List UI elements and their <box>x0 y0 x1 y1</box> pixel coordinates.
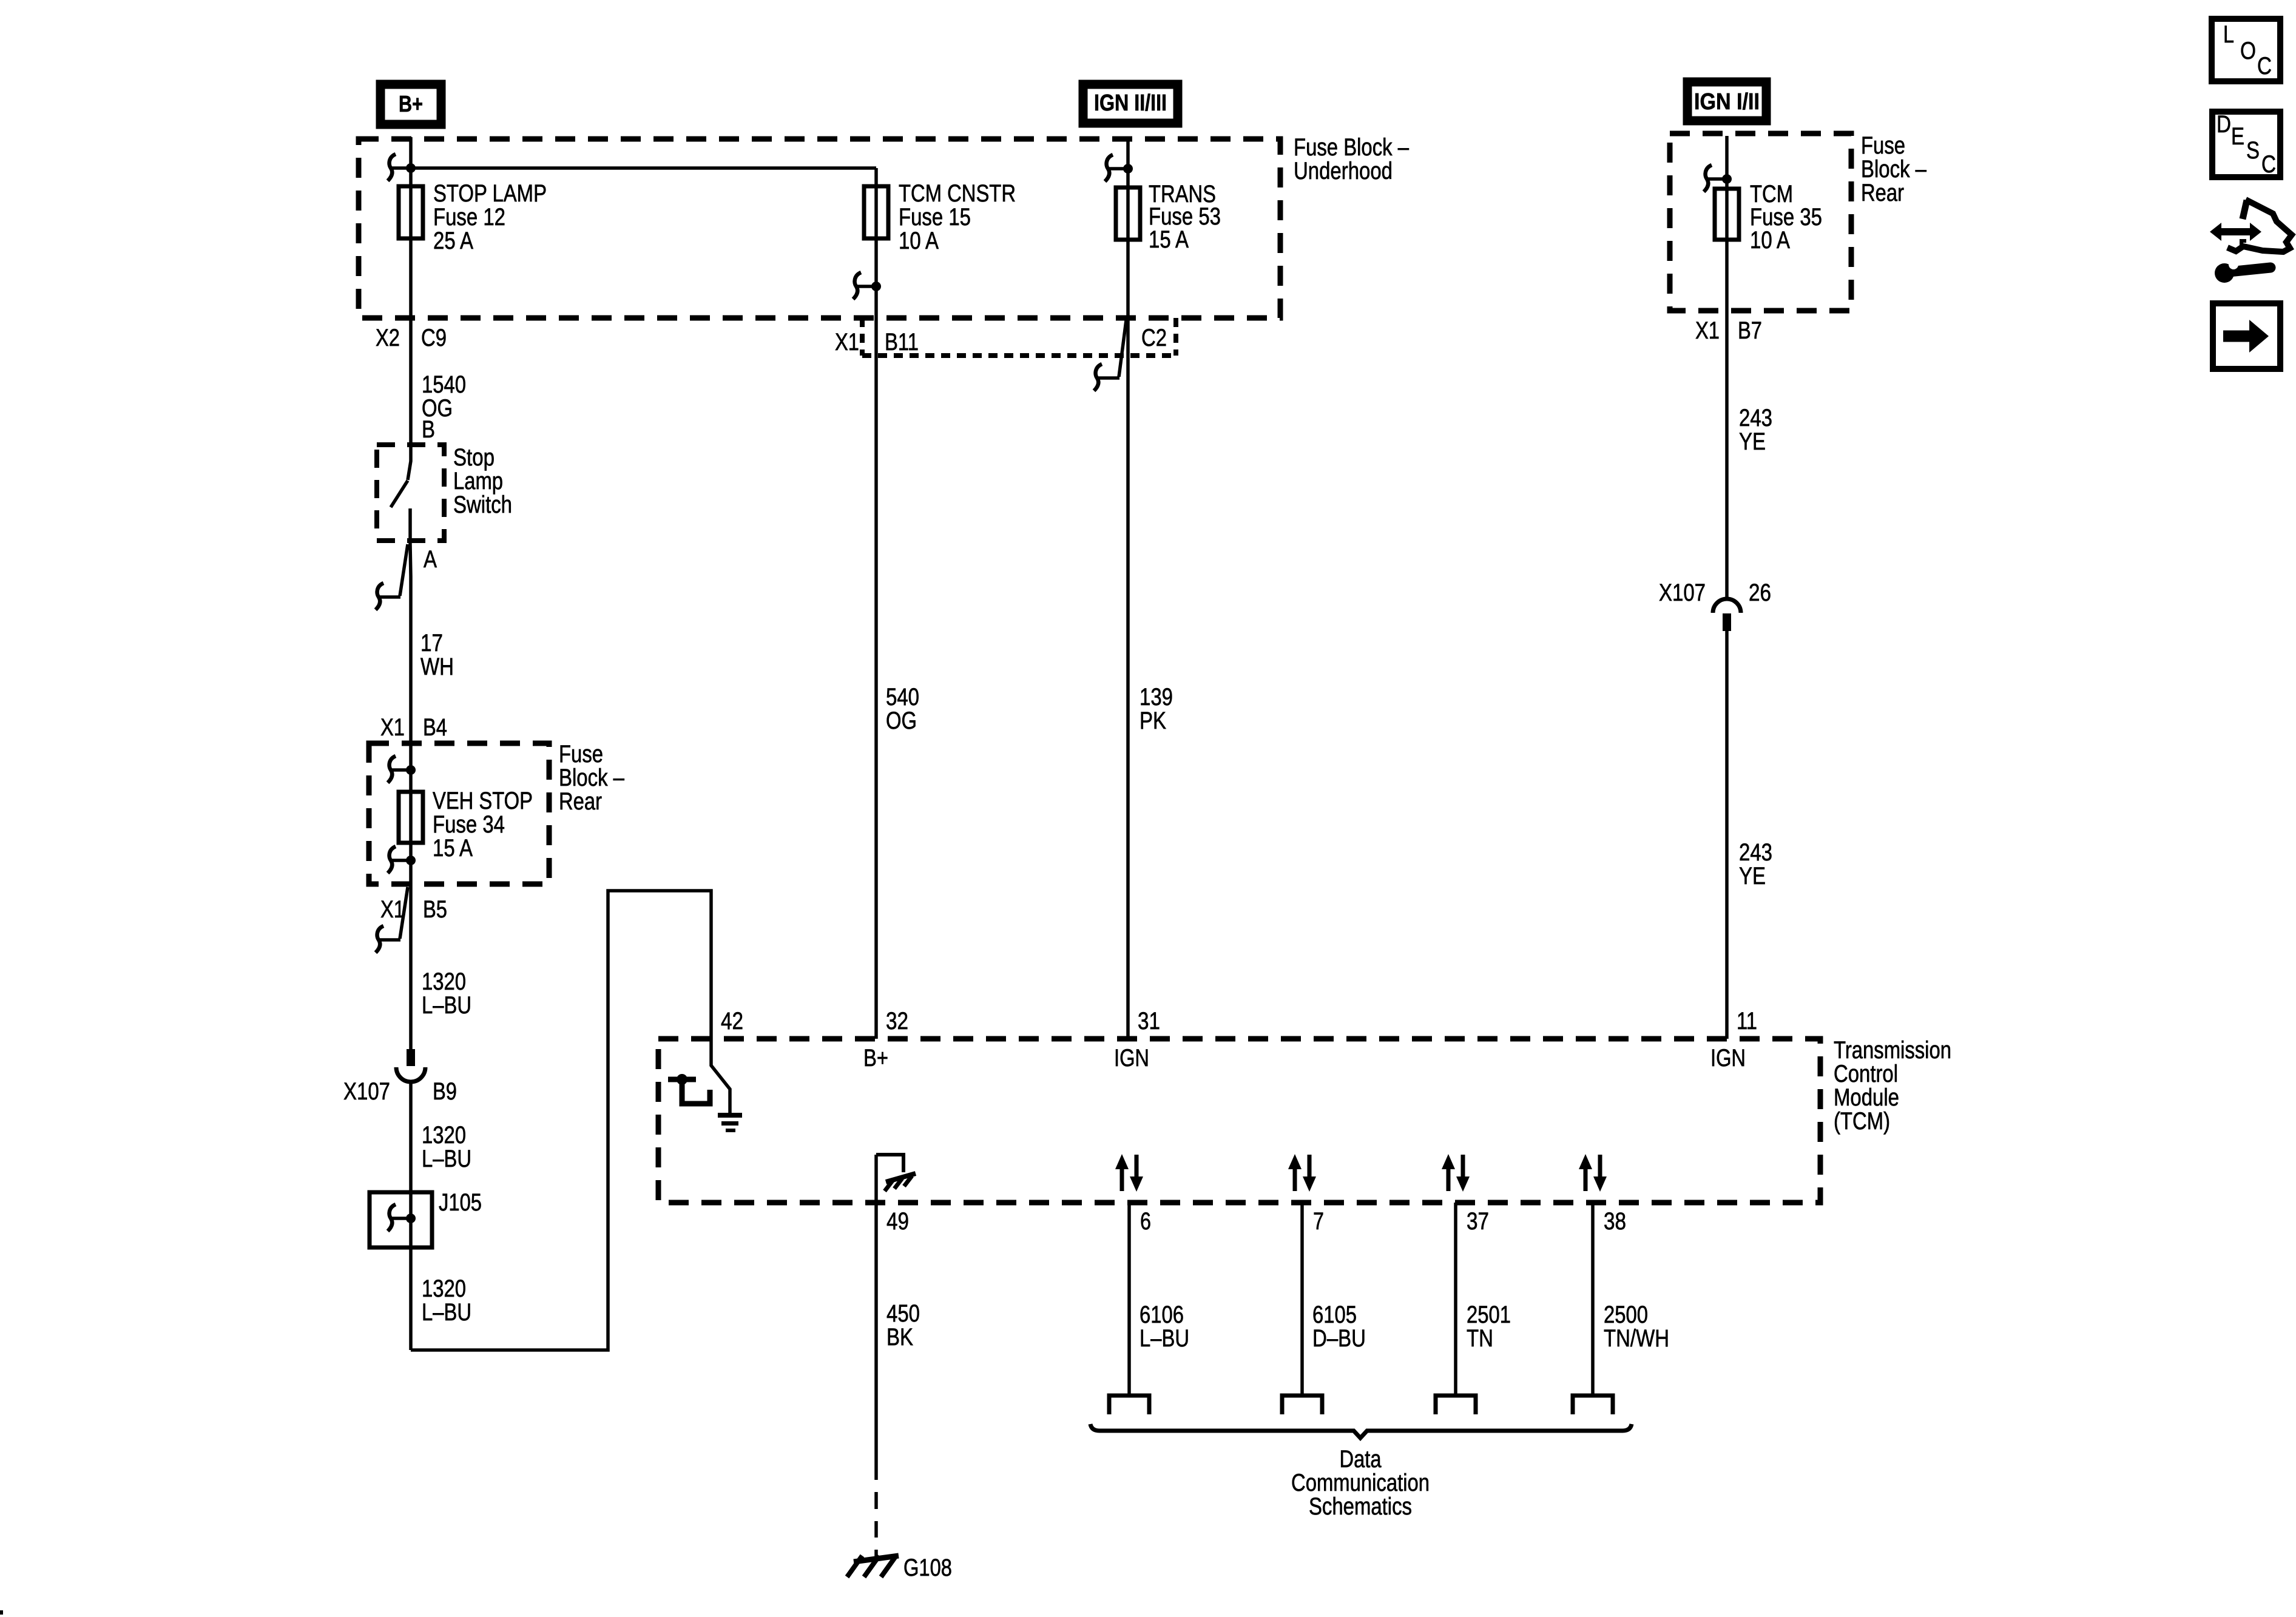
brace data communication <box>1090 1424 1632 1520</box>
svg-text:49: 49 <box>886 1208 909 1235</box>
wire label 139 PK <box>1140 684 1173 734</box>
svg-text:Fuse 34: Fuse 34 <box>433 811 505 838</box>
svg-text:Fuse 12: Fuse 12 <box>433 204 505 231</box>
wire TRANS fuse feed down to pin 31 <box>1126 141 1130 1039</box>
svg-text:X2: X2 <box>376 325 400 351</box>
wire label 1320 L-BU <box>422 1275 471 1326</box>
switch blade <box>391 481 408 507</box>
svg-text:B+: B+ <box>863 1045 888 1072</box>
connector clip at B5 <box>376 887 408 953</box>
svg-text:Fuse: Fuse <box>559 741 603 768</box>
svg-text:1320: 1320 <box>422 1275 466 1302</box>
icon DESC box <box>2212 111 2280 178</box>
svg-text:TN: TN <box>1467 1325 1493 1352</box>
svg-text:J105: J105 <box>439 1189 482 1216</box>
scan artifact dot bottom-left <box>0 1610 3 1615</box>
node junction B+ rail <box>406 163 416 173</box>
pin 49 label <box>886 1208 909 1235</box>
label X1 B7 <box>1695 317 1762 344</box>
svg-text:IGN II/III: IGN II/III <box>1094 90 1167 116</box>
wire B+ feed down left column <box>408 137 411 480</box>
svg-text:1540: 1540 <box>422 371 466 398</box>
wire label 1540 OG <box>422 371 466 422</box>
internal ground at pin 49 <box>876 1155 916 1191</box>
svg-text:TCM CNSTR: TCM CNSTR <box>899 180 1016 207</box>
svg-text:Stop: Stop <box>453 444 495 471</box>
svg-text:1320: 1320 <box>422 968 466 995</box>
clip at fuse 34 output <box>388 846 416 873</box>
svg-text:B4: B4 <box>423 714 447 741</box>
serial data arrows pin 7 <box>1288 1154 1316 1192</box>
svg-text:B: B <box>422 416 435 443</box>
icon LOC box <box>2212 19 2280 81</box>
stop lamp switch dashed box <box>377 444 512 541</box>
svg-text:Schematics: Schematics <box>1309 1493 1412 1520</box>
fuse F53 TRANS 15A <box>1116 181 1221 253</box>
svg-text:IGN: IGN <box>1114 1045 1149 1072</box>
power symbol IGN I/II box <box>1687 82 1766 121</box>
serial data arrows pin 38 <box>1579 1154 1607 1192</box>
svg-text:BK: BK <box>886 1324 913 1351</box>
svg-text:1320: 1320 <box>422 1122 466 1149</box>
wire 450 BK from pin 49 <box>876 1155 920 1557</box>
svg-text:STOP LAMP: STOP LAMP <box>433 180 547 207</box>
svg-text:B11: B11 <box>885 329 919 356</box>
svg-text:6: 6 <box>1140 1208 1151 1235</box>
svg-text:Module: Module <box>1834 1084 1899 1111</box>
svg-text:139: 139 <box>1140 684 1173 711</box>
wire label 17 WH <box>420 630 454 680</box>
svg-text:42: 42 <box>721 1008 743 1035</box>
svg-text:E: E <box>2231 123 2244 150</box>
svg-text:B9: B9 <box>433 1078 457 1105</box>
splice J105 box <box>370 1189 482 1247</box>
svg-text:Communication: Communication <box>1291 1470 1430 1496</box>
net label IGN at pin 11 <box>1710 1045 1746 1072</box>
svg-text:Transmission: Transmission <box>1834 1037 1951 1064</box>
svg-text:Underhood: Underhood <box>1294 158 1393 184</box>
wire TCM CNSTR fuse feed down to pin 32 <box>874 168 878 1039</box>
label X1 B11 <box>835 329 919 356</box>
connector X1 dotted box under underhood block <box>862 318 1176 356</box>
svg-text:L–BU: L–BU <box>1140 1325 1189 1352</box>
svg-text:X107: X107 <box>1659 579 1706 606</box>
svg-text:6105: 6105 <box>1312 1301 1357 1328</box>
svg-text:C2: C2 <box>1141 325 1167 351</box>
wire label 540 OG <box>886 684 919 734</box>
svg-text:15 A: 15 A <box>1149 226 1189 253</box>
svg-text:X1: X1 <box>835 329 859 356</box>
svg-text:243: 243 <box>1739 405 1772 431</box>
ground G108 <box>847 1555 952 1581</box>
svg-text:2500: 2500 <box>1604 1301 1648 1328</box>
wire below X107 26 to pin 11 <box>1725 631 1729 1039</box>
pin 11 label <box>1737 1008 1757 1035</box>
svg-text:540: 540 <box>886 684 919 711</box>
label X1 B4 <box>380 714 447 741</box>
label X2 C9 <box>376 325 447 351</box>
power symbol IGN II/III box <box>1083 84 1178 123</box>
wire label 243 YE <box>1739 405 1772 455</box>
svg-text:TN/WH: TN/WH <box>1604 1325 1669 1352</box>
clip at fuse 35 input <box>1704 165 1732 192</box>
pin 31 label <box>1138 1008 1160 1035</box>
svg-text:25 A: 25 A <box>433 228 473 254</box>
svg-text:G108: G108 <box>903 1555 952 1581</box>
wire route to TCM pin 42 <box>411 891 711 1350</box>
svg-text:Lamp: Lamp <box>453 468 503 495</box>
fuse F34 VEH STOP 15A <box>399 788 533 862</box>
svg-text:37: 37 <box>1467 1208 1489 1235</box>
clip at fuse 34 input <box>388 756 416 783</box>
svg-text:Switch: Switch <box>453 491 512 518</box>
svg-text:C: C <box>2261 151 2276 178</box>
fuse block rear dashed box (right) <box>1670 132 1927 311</box>
svg-text:L–BU: L–BU <box>422 1299 471 1326</box>
svg-text:O: O <box>2240 38 2256 64</box>
svg-text:WH: WH <box>420 653 454 680</box>
pin 7 label and wire 6105 D-BU <box>1282 1203 1366 1414</box>
svg-text:Rear: Rear <box>1861 180 1904 206</box>
wire IGN I/II feed down <box>1725 136 1729 598</box>
label C2 <box>1141 325 1167 351</box>
svg-text:B5: B5 <box>423 896 447 923</box>
svg-text:VEH STOP: VEH STOP <box>433 788 533 814</box>
label A <box>424 546 437 573</box>
svg-text:Block –: Block – <box>559 765 625 791</box>
svg-text:IGN I/II: IGN I/II <box>1694 89 1760 115</box>
wire label 1320 L-BU <box>422 1122 471 1172</box>
svg-text:Data: Data <box>1340 1446 1382 1473</box>
svg-text:17: 17 <box>420 630 443 657</box>
svg-text:Control: Control <box>1834 1061 1898 1087</box>
clip at fuse 12 input <box>388 154 407 181</box>
svg-text:32: 32 <box>886 1008 908 1035</box>
icon hand with arrow and wrench <box>2210 200 2292 283</box>
svg-text:X1: X1 <box>380 896 405 923</box>
svg-text:X1: X1 <box>1695 317 1720 344</box>
serial data arrows pin 6 <box>1115 1154 1143 1192</box>
wire B+ rail to fuse 15 <box>411 166 876 170</box>
TCM dashed box <box>658 1037 1951 1203</box>
svg-text:OG: OG <box>886 707 917 734</box>
fuse F35 TCM 10A <box>1715 181 1822 254</box>
svg-text:Fuse Block –: Fuse Block – <box>1294 134 1410 161</box>
fuse F15 TCM CNSTR 10A <box>864 180 1016 254</box>
svg-text:PK: PK <box>1140 707 1166 734</box>
fuse F12 STOP LAMP 25A <box>399 180 547 254</box>
wire label 1320 L-BU <box>422 968 471 1019</box>
net label B+ at pin 32 <box>863 1045 888 1072</box>
svg-text:11: 11 <box>1737 1008 1757 1035</box>
svg-text:B+: B+ <box>399 92 423 117</box>
svg-text:YE: YE <box>1739 863 1766 890</box>
svg-text:31: 31 <box>1138 1008 1160 1035</box>
svg-text:10 A: 10 A <box>899 228 939 254</box>
pin 37 label and wire 2501 TN <box>1436 1203 1511 1414</box>
connector clip at C2 <box>1094 320 1126 391</box>
fuse block underhood dashed box <box>359 134 1410 318</box>
svg-text:L–BU: L–BU <box>422 1146 471 1172</box>
svg-text:Rear: Rear <box>559 788 602 815</box>
svg-text:B7: B7 <box>1738 317 1762 344</box>
pin 42 label <box>721 1008 743 1035</box>
power symbol B+ box <box>380 84 441 124</box>
svg-text:S: S <box>2246 137 2260 164</box>
wire below X107 B9 <box>409 1082 413 1350</box>
svg-text:L: L <box>2223 21 2234 48</box>
inline connector X107 26 <box>1659 579 1771 631</box>
svg-text:38: 38 <box>1604 1208 1626 1235</box>
wire label 243 YE <box>1739 839 1772 890</box>
svg-text:26: 26 <box>1749 579 1771 606</box>
svg-text:2501: 2501 <box>1467 1301 1511 1328</box>
svg-text:D: D <box>2217 111 2231 138</box>
icon arrow box <box>2213 303 2280 369</box>
svg-text:IGN: IGN <box>1710 1045 1746 1072</box>
svg-text:Fuse 15: Fuse 15 <box>899 204 971 231</box>
internal switch to ground at pin 42 <box>668 1039 742 1132</box>
svg-text:X1: X1 <box>380 714 405 741</box>
svg-text:L–BU: L–BU <box>422 992 471 1019</box>
svg-text:(TCM): (TCM) <box>1834 1108 1890 1135</box>
clip at fuse 53 input <box>1105 155 1133 181</box>
svg-text:15 A: 15 A <box>433 835 473 862</box>
serial data arrows pin 37 <box>1442 1154 1470 1192</box>
svg-text:Fuse: Fuse <box>1861 132 1905 159</box>
net label IGN at pin 31 <box>1114 1045 1149 1072</box>
svg-text:X107: X107 <box>343 1078 390 1105</box>
svg-text:6106: 6106 <box>1140 1301 1184 1328</box>
svg-text:10 A: 10 A <box>1750 227 1790 254</box>
svg-text:Block –: Block – <box>1861 156 1927 183</box>
pin 38 label and wire 2500 TN/WH <box>1573 1203 1669 1414</box>
wire switch output <box>410 508 411 1049</box>
svg-text:243: 243 <box>1739 839 1772 866</box>
svg-text:YE: YE <box>1739 428 1766 455</box>
svg-text:A: A <box>424 546 437 573</box>
label X1 B5 <box>380 896 447 923</box>
label B <box>422 416 435 443</box>
pin 6 label and wire 6106 L-BU <box>1109 1203 1189 1414</box>
connector clip at A <box>376 544 408 610</box>
fuse block rear dashed box (left) <box>369 741 625 884</box>
inline connector X107 B9 <box>343 1049 457 1105</box>
pin 32 label <box>886 1008 908 1035</box>
svg-text:450: 450 <box>886 1300 920 1327</box>
svg-text:D–BU: D–BU <box>1312 1325 1366 1352</box>
svg-text:C9: C9 <box>421 325 447 351</box>
svg-text:C: C <box>2257 53 2272 79</box>
svg-text:7: 7 <box>1313 1208 1324 1235</box>
clip at fuse 15 output <box>853 272 881 299</box>
